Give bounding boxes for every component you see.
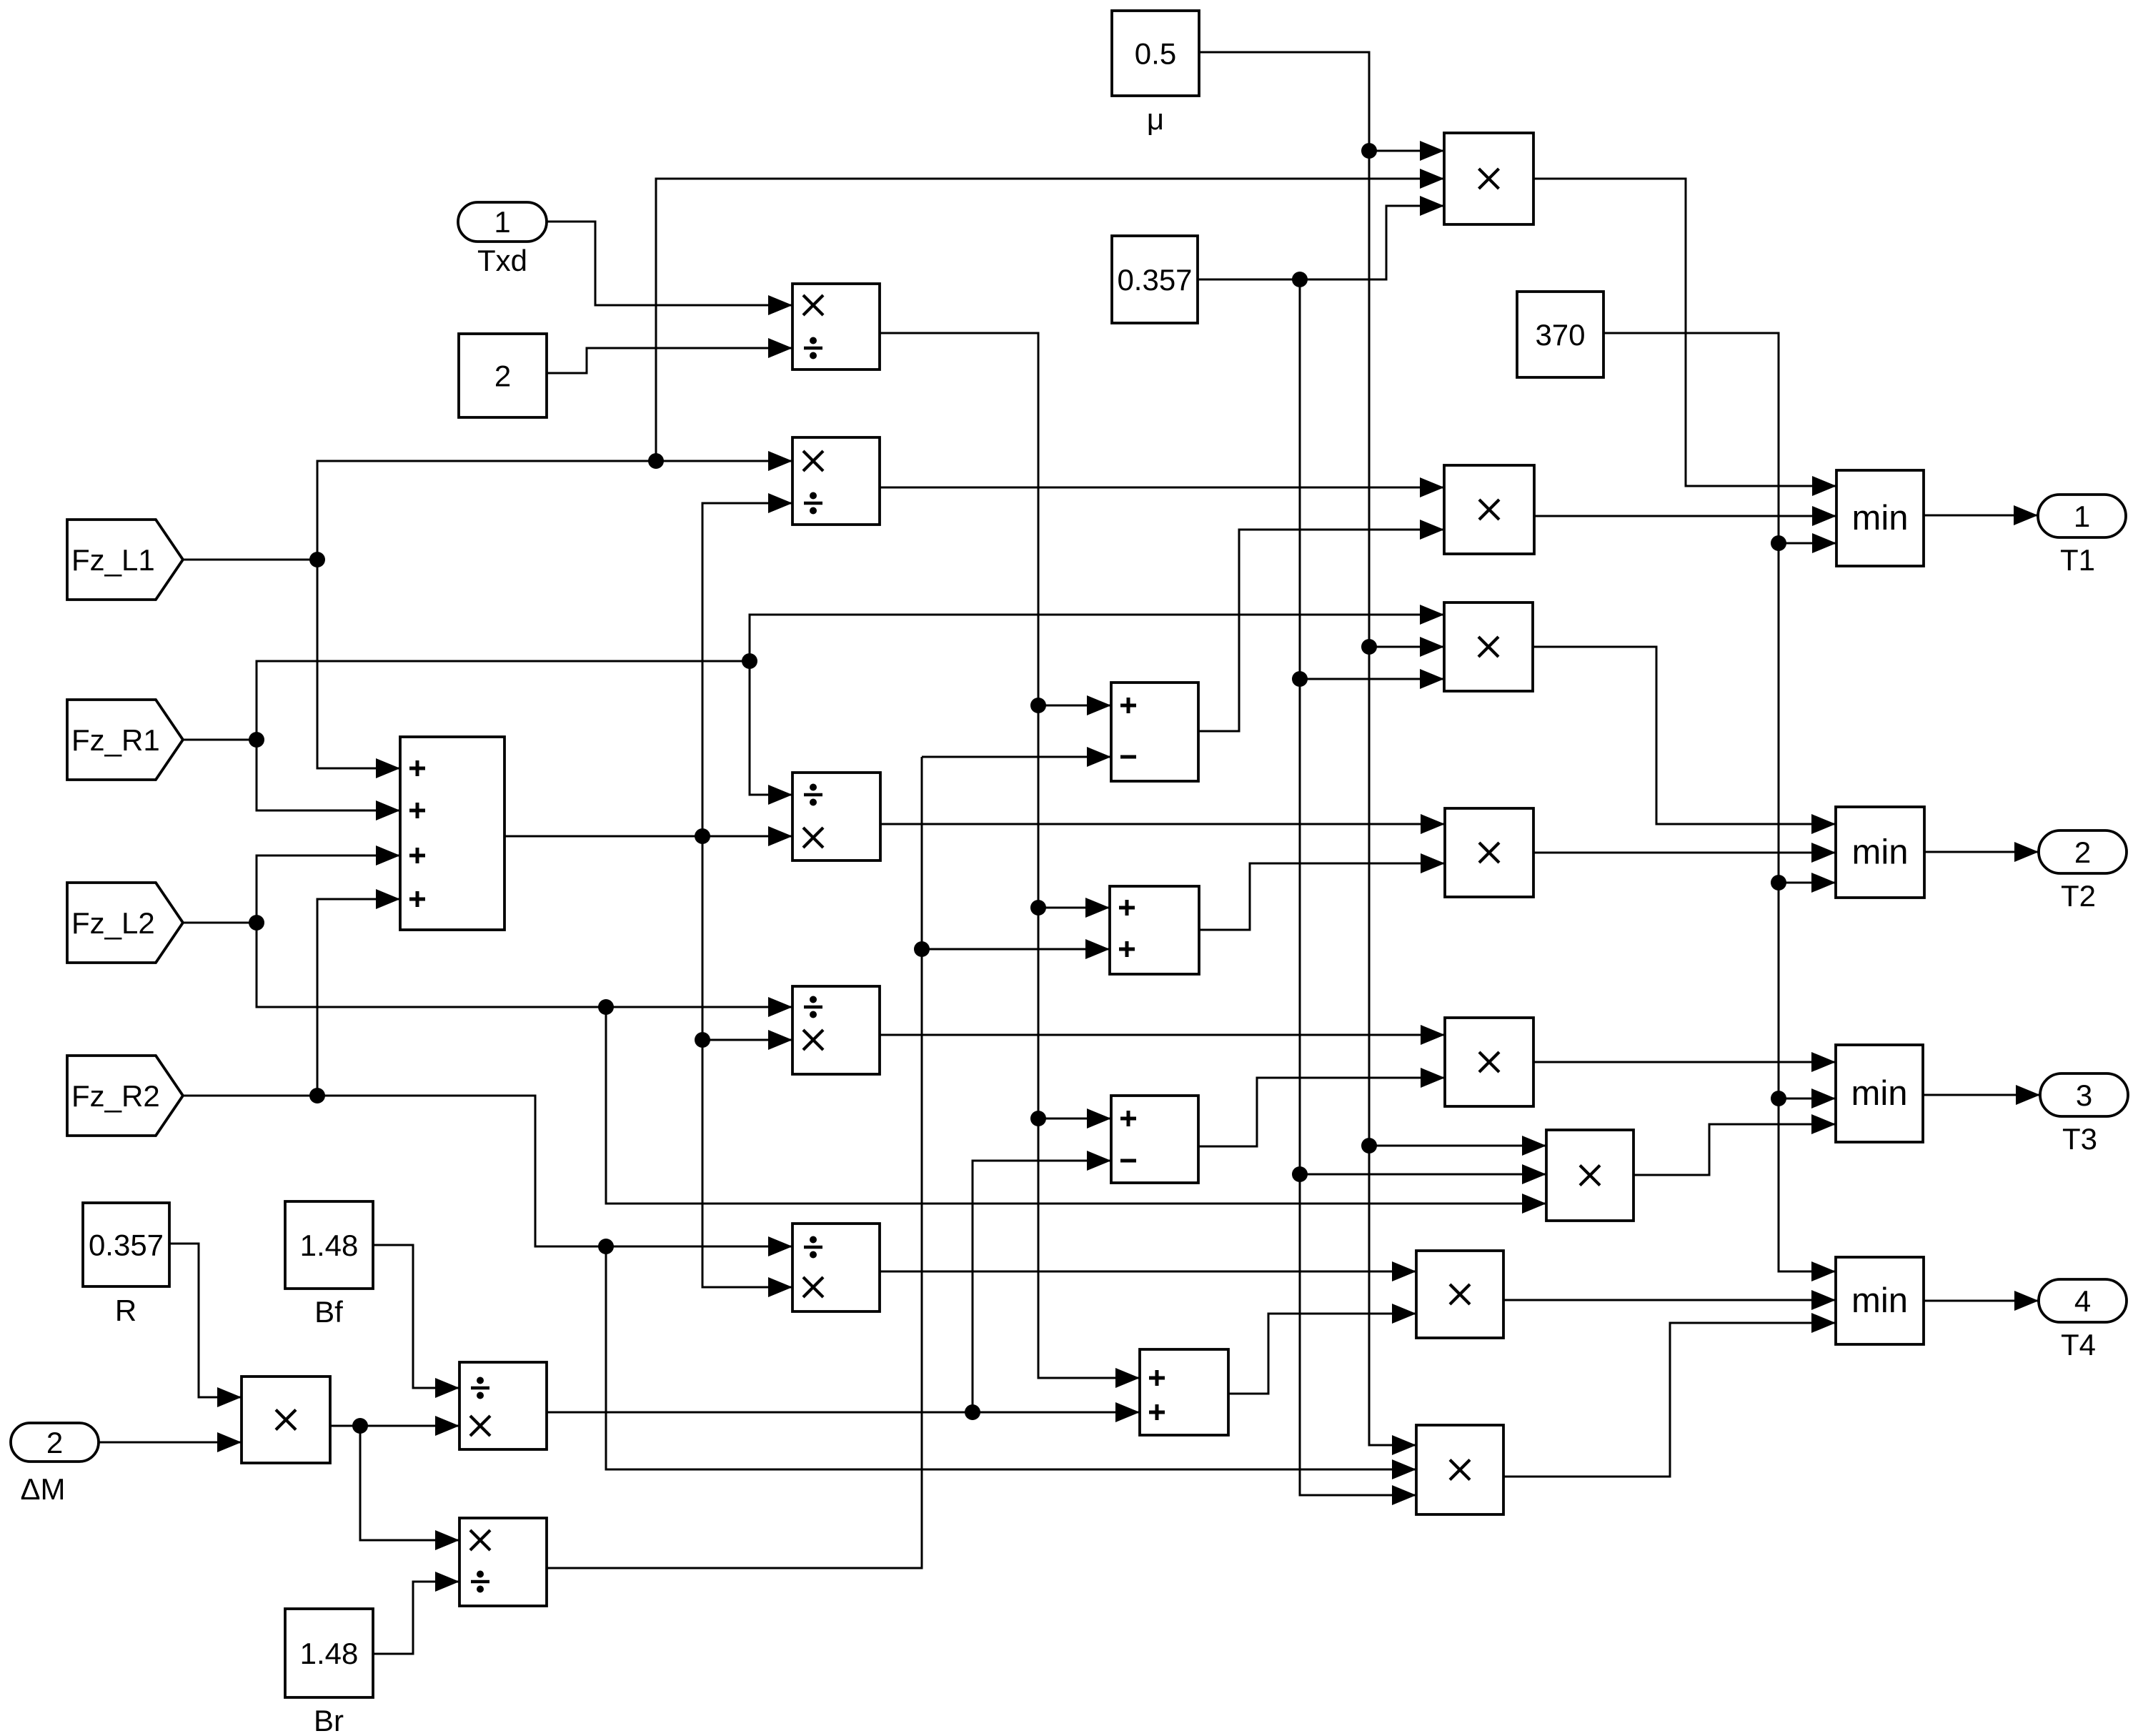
svg-text:min: min: [1852, 499, 1909, 537]
product U3 mu*FzR1*R: [1444, 602, 1533, 691]
min block T4: [1836, 1257, 1924, 1344]
wire Fz_L1 riser up to Product2 in1: [317, 451, 792, 560]
wire Constant2 to Product1 in2: [547, 338, 792, 373]
junction Fz_L1-Product2: [648, 453, 664, 469]
wire Sum2 out to Product_U4 in2: [1199, 853, 1445, 930]
wire min4 out to T4: [1924, 1291, 2039, 1311]
wire min3 out to T3: [1923, 1085, 2040, 1105]
wire Fz_R2 branch down to Product4b in2: [606, 1246, 1416, 1479]
wire ProductM branch to Product7 in1: [360, 1426, 459, 1550]
svg-text:1: 1: [494, 205, 510, 239]
svg-text:0.5: 0.5: [1135, 37, 1176, 71]
wire Fz_R1 branch down to Sum in2: [257, 740, 400, 820]
svg-text:T4: T4: [2061, 1328, 2096, 1361]
outport 4 T4: [2039, 1279, 2127, 1361]
min block T2: [1836, 807, 1924, 898]
constant R 0.357: [83, 1203, 169, 1286]
junction Product6-Diff2: [965, 1404, 980, 1420]
wire Bf to Product6 in1: [373, 1245, 459, 1398]
svg-text:3: 3: [2076, 1078, 2092, 1112]
wire Product7 branch to Sum2 in2: [922, 939, 1110, 959]
sum Diff1 front: [1111, 683, 1198, 781]
input label Fz_L1: [67, 520, 183, 600]
svg-text:2: 2: [46, 1426, 63, 1459]
svg-text:T3: T3: [2062, 1122, 2097, 1156]
wire Fz_R2 to junction: [183, 1095, 317, 1097]
junction 370-min2: [1771, 875, 1786, 891]
wire Sum branch down to Product5 in2: [702, 836, 792, 1297]
constant Bf 1.48: [285, 1201, 373, 1289]
svg-text:Bf: Bf: [314, 1295, 343, 1329]
junction Product7-Sum2: [914, 941, 930, 957]
product Product6 /Bf: [459, 1362, 547, 1449]
svg-text:Fz_R2: Fz_R2: [71, 1079, 160, 1113]
wire Fz_L1 to junction: [183, 559, 317, 561]
wire 370 branch to min1 in3: [1779, 533, 1836, 553]
wire 370 branch to min2 in3: [1779, 873, 1836, 893]
junction Fz_L2: [249, 915, 264, 931]
product U8 T4b: [1416, 1425, 1503, 1514]
junction ProductM-out: [352, 1418, 368, 1434]
junction mu-U3: [1361, 639, 1377, 655]
wire mu 0.5 to Product4b trunk: [1199, 52, 1416, 1455]
wire Product7 out riser: [547, 757, 922, 1568]
wire Product1 branch to Diff1 in1: [1038, 695, 1111, 715]
outport 2 T2: [2039, 830, 2127, 913]
svg-text:Br: Br: [314, 1704, 344, 1736]
constant 370: [1517, 292, 1603, 377]
junction 370-min1: [1771, 535, 1786, 551]
wire Product4 out to Product_U5 in1: [880, 1025, 1445, 1045]
wire mu branch to Product_U6 in1: [1369, 1136, 1546, 1156]
wire Br to Product7 in2: [373, 1572, 459, 1654]
inport 2 dM: [11, 1423, 99, 1462]
junction mu-U6: [1361, 1138, 1377, 1154]
junction Txd2-Sum2: [1030, 900, 1046, 916]
svg-text:Fz_L1: Fz_L1: [71, 543, 155, 577]
wire Product6 out to Sum3 in2: [547, 1402, 1140, 1422]
svg-text:2: 2: [2074, 835, 2091, 869]
wire Fz_R2 branch up to Sum in4: [317, 889, 400, 1096]
wire Product5 out to Product4a in1: [880, 1261, 1416, 1281]
wire Diff1 out to Product_U2 in2: [1198, 520, 1444, 731]
input label Fz_R2: [67, 1056, 183, 1136]
wire Product3 out to Product_U4 in1: [880, 814, 1445, 834]
wire Fz_L2 branch down to Product4 in1: [257, 923, 792, 1017]
product U4 T2: [1445, 808, 1533, 897]
svg-text:min: min: [1851, 1281, 1908, 1320]
svg-text:T2: T2: [2061, 879, 2096, 913]
junction 370-min3: [1771, 1091, 1786, 1106]
junction Fz_L1: [309, 552, 325, 567]
wire Sum branch to Product4 in2: [702, 1030, 792, 1050]
constant Br 1.48: [285, 1609, 373, 1697]
wire Product_U2 out to min1 in2: [1534, 506, 1836, 526]
product Product1 Txd/2: [792, 284, 880, 369]
junction Txd2-Diff2: [1030, 1111, 1046, 1126]
wire ProductM out to Product6 in2: [330, 1416, 459, 1436]
wire Product_U4 out to min2 in2: [1533, 843, 1836, 863]
outport 1 T1: [2038, 495, 2126, 577]
wire R-const to Product_U1 in3: [1198, 196, 1444, 279]
input label Fz_R1: [67, 700, 183, 780]
wire Sum3 out to Product4a in2: [1228, 1304, 1416, 1394]
wire Product4a out to min4 in2: [1503, 1290, 1836, 1310]
constant 2: [459, 334, 547, 417]
wire 370 branch to min3 in2: [1779, 1088, 1836, 1108]
wire Fz_R2 trunk to Product5 in1: [317, 1096, 792, 1256]
junction Rconst-top: [1292, 272, 1308, 287]
svg-text:min: min: [1851, 1074, 1908, 1113]
svg-text:T1: T1: [2060, 543, 2095, 577]
junction Sum-Product4: [695, 1032, 710, 1048]
wire Fz_R1 branch to Product_U3 in1: [750, 605, 1444, 661]
product U1 mu*FzL1*R: [1444, 133, 1533, 224]
constant 0.357: [1112, 236, 1198, 323]
svg-text:R: R: [115, 1294, 136, 1327]
wire Fz_R1 riser up: [257, 661, 750, 740]
product Product7 /Br: [459, 1518, 547, 1606]
wire Fz_L1 branch up to Product_U1 in2: [656, 169, 1444, 461]
min block T3: [1836, 1045, 1923, 1142]
product Product4 FzL2/Sum: [792, 986, 880, 1074]
wire Fz_R1 branch to Product3 in1: [750, 661, 792, 805]
wire Product_U1 out to min1 in1: [1533, 179, 1836, 496]
junction Sum-out: [695, 828, 710, 844]
sum Add2 front: [1110, 886, 1199, 974]
product ProductM R*dM: [242, 1377, 330, 1463]
product Product5 FzR2/Sum: [792, 1224, 880, 1311]
svg-text:370: 370: [1535, 318, 1585, 352]
wire R 0.357 to ProductM in1: [169, 1244, 242, 1407]
junction Fz_L2-down: [598, 999, 614, 1015]
wire Fz_L2 branch up to Sum in3: [257, 845, 400, 923]
constant mu 0.5: [1112, 11, 1199, 96]
wire min1 out to T1: [1924, 505, 2038, 525]
wire Product_U3 out to min2 in1: [1533, 647, 1836, 834]
wire Fz_L2 to junction: [183, 922, 257, 924]
wire 370 trunk to min4 in1: [1603, 333, 1836, 1281]
wire Product2 out to Product_U2 in1: [880, 477, 1444, 497]
product U6 mu*R*FzL2: [1546, 1130, 1634, 1221]
svg-text:0.357: 0.357: [89, 1229, 164, 1262]
wire Product1 branch to Sum2 in1: [1038, 898, 1110, 918]
junction Rconst-U3: [1292, 671, 1308, 687]
sum Diff2 rear: [1111, 1096, 1198, 1183]
outport 3 T3: [2040, 1073, 2128, 1156]
product Product3 FzR1/Sum: [792, 773, 880, 860]
junction mu-U1: [1361, 143, 1377, 159]
junction Fz_R2: [309, 1088, 325, 1103]
svg-text:1.48: 1.48: [300, 1637, 359, 1670]
wire Diff2 out to Product_U5 in2: [1198, 1068, 1445, 1146]
wire R-const branch to Product_U3 in3: [1300, 669, 1444, 689]
product U2 T1: [1444, 465, 1534, 554]
wire dM to ProductM in2: [99, 1432, 242, 1452]
wire mu branch to Product_U1 in1: [1369, 141, 1444, 161]
wire Fz_L1 branch down to Sum in1: [317, 560, 400, 778]
product U7 T4a: [1416, 1251, 1503, 1338]
svg-text:μ: μ: [1147, 102, 1164, 136]
junction Fz_R1: [249, 732, 264, 748]
svg-text:min: min: [1852, 833, 1909, 872]
min block T1: [1836, 470, 1924, 566]
product U5 T3: [1445, 1018, 1533, 1106]
wire Product1 out trunk to Sum3 in1: [880, 333, 1140, 1388]
svg-text:ΔM: ΔM: [20, 1472, 65, 1506]
wire R-const vertical trunk to Product4b in3: [1300, 279, 1416, 1505]
wire Sum branch up to Product2 in2: [702, 493, 792, 836]
wire Fz_L2 branch to Product_U6 in3: [606, 1007, 1546, 1214]
sum Add2 rear: [1140, 1349, 1228, 1435]
svg-text:Fz_L2: Fz_L2: [71, 906, 155, 940]
wire min2 out to T2: [1924, 842, 2039, 862]
svg-text:0.357: 0.357: [1117, 263, 1192, 297]
junction Fz_R2-down: [598, 1239, 614, 1254]
wire Sum out to Product3 in2: [504, 826, 792, 846]
junction Txd2-Diff1: [1030, 698, 1046, 713]
junction Rconst-U6: [1292, 1166, 1308, 1182]
wire Product_U6 out to min3 in3: [1634, 1114, 1836, 1175]
wire Product1 branch to Diff2 in1: [1038, 1108, 1111, 1129]
svg-text:Txd: Txd: [477, 244, 527, 277]
wire Product_U5 out to min3 in1: [1533, 1052, 1836, 1072]
svg-text:2: 2: [494, 359, 511, 393]
svg-text:4: 4: [2074, 1284, 2091, 1318]
sum Add4 total Fz: [400, 737, 504, 930]
svg-text:1: 1: [2074, 500, 2090, 533]
wire mu branch to Product_U3 in2: [1369, 637, 1444, 657]
wire R-const branch to Product_U6 in2: [1300, 1164, 1546, 1184]
inport 1 Txd: [458, 202, 547, 277]
wire Txd to Product1 in1: [547, 222, 792, 315]
wire Product7 riser to Diff1 in2: [922, 747, 1111, 767]
input label Fz_L2: [67, 883, 183, 963]
svg-text:Fz_R1: Fz_R1: [71, 723, 160, 757]
product Product2 FzL1/Sum: [792, 437, 880, 525]
svg-text:1.48: 1.48: [300, 1229, 359, 1262]
wire Product6 branch to Diff2 in2: [973, 1151, 1111, 1412]
wire Product4b out to min4 in3: [1503, 1313, 1836, 1477]
junction Fz_R1-right: [742, 653, 757, 669]
wire Fz_R1 to junction: [183, 739, 257, 741]
